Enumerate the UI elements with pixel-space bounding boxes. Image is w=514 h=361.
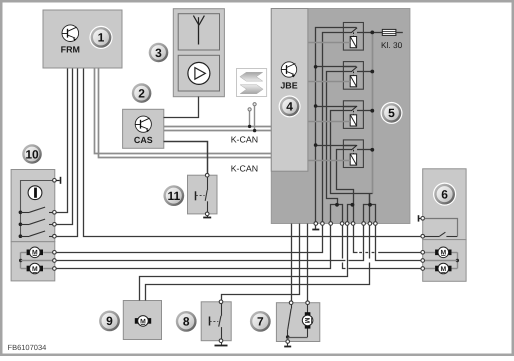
svg-text:3: 3 (155, 46, 162, 60)
svg-text:7: 7 (257, 315, 264, 329)
svg-text:1: 1 (98, 31, 105, 45)
svg-text:M: M (440, 266, 446, 273)
svg-text:JBE: JBE (280, 80, 297, 90)
svg-text:11: 11 (167, 189, 180, 203)
svg-text:M: M (303, 318, 310, 324)
svg-text:M: M (32, 266, 38, 273)
svg-text:6: 6 (441, 187, 448, 201)
svg-text:5: 5 (388, 106, 395, 120)
svg-text:K-CAN: K-CAN (231, 134, 258, 144)
svg-text:9: 9 (106, 314, 113, 328)
svg-text:10: 10 (25, 147, 39, 161)
svg-text:FB6107034: FB6107034 (8, 343, 47, 352)
svg-text:Kl. 30: Kl. 30 (381, 40, 403, 50)
svg-text:4: 4 (286, 100, 293, 114)
svg-text:CAS: CAS (134, 135, 153, 145)
svg-text:K-CAN: K-CAN (231, 164, 258, 174)
svg-text:2: 2 (138, 86, 145, 100)
svg-text:8: 8 (183, 315, 190, 329)
svg-text:FRM: FRM (61, 44, 80, 54)
